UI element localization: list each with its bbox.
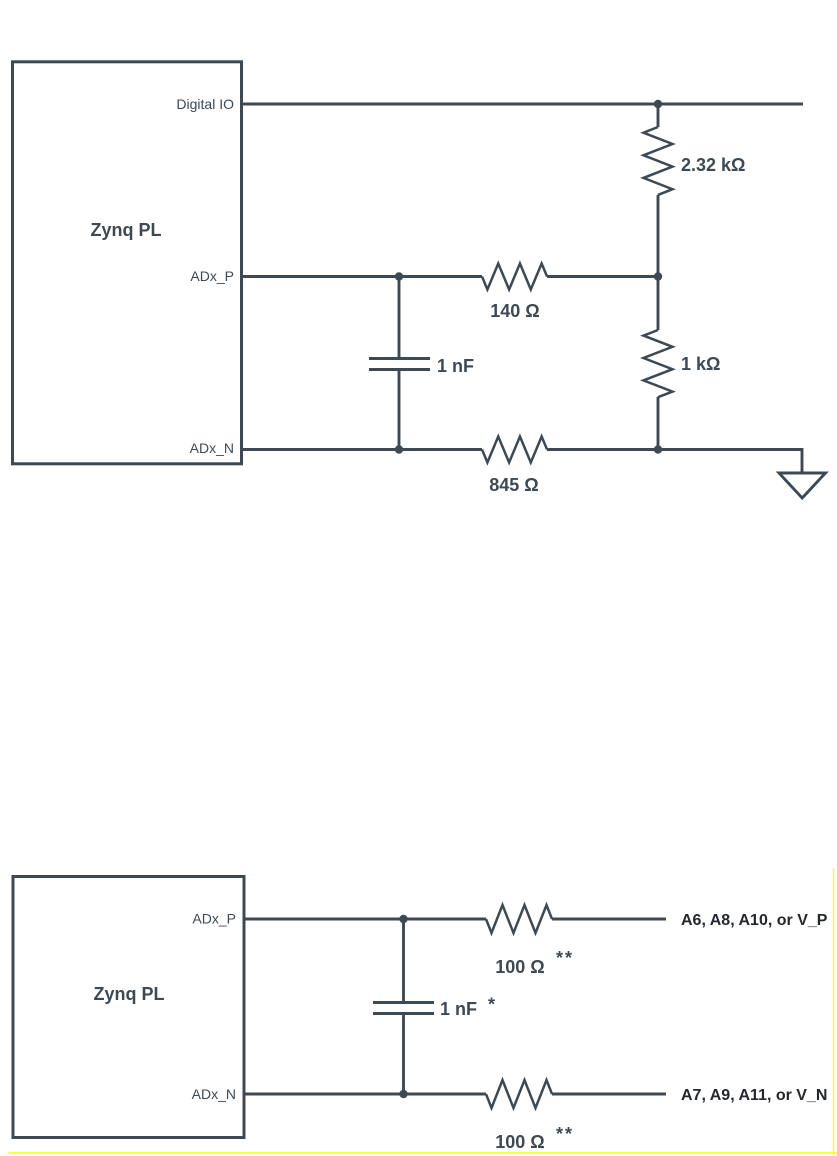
resistor 140 Ohm: [482, 264, 547, 290]
ground symbol: [779, 473, 826, 498]
capacitor C1 top lead: [398, 277, 401, 359]
wire between ADx_P node and 1k: [657, 277, 660, 331]
capacitor C1 plates: [369, 357, 430, 360]
svg-text:1 nF: 1 nF: [437, 356, 474, 376]
wire ADx_P: [242, 275, 482, 278]
node junction ADx_N right: [654, 445, 662, 453]
svg-text:100 Ω: 100 Ω: [495, 1132, 544, 1152]
node junction ADx_N cap bottom diagram: [399, 1090, 407, 1098]
svg-text:*: *: [488, 995, 495, 1015]
wire ADx_P bottom diagram: [244, 918, 486, 921]
svg-text:Zynq PL: Zynq PL: [91, 220, 162, 240]
resistor 100 Ohm bottom: [486, 1080, 552, 1108]
svg-text:1 kΩ: 1 kΩ: [681, 354, 720, 374]
Zynq PL box U2: [13, 877, 244, 1138]
svg-text:ADx_N: ADx_N: [190, 440, 234, 456]
wire Digital IO: [242, 103, 803, 106]
node junction ADx_P right: [654, 272, 662, 280]
wire between 1k and ADx_N: [657, 397, 660, 450]
highlight border right: [833, 868, 835, 1156]
wire to net label V_N: [552, 1093, 666, 1096]
wire to net label V_P: [552, 918, 666, 921]
capacitor C2 top lead: [402, 919, 405, 1002]
wire ADx_P right of resistor: [547, 275, 658, 278]
node junction top: [654, 100, 662, 108]
svg-text:2.32 kΩ: 2.32 kΩ: [681, 155, 745, 175]
svg-text:A7, A9, A11, or V_N: A7, A9, A11, or V_N: [681, 1087, 827, 1104]
resistor 845 Ohm: [482, 437, 547, 463]
svg-text:ADx_N: ADx_N: [192, 1086, 236, 1102]
capacitor C1 bottom lead: [398, 370, 401, 450]
svg-text:1 nF: 1 nF: [440, 999, 477, 1019]
resistor 2.32 kOhm: [644, 127, 673, 195]
svg-text:Zynq PL: Zynq PL: [94, 984, 165, 1004]
node junction ADx_P cap: [395, 272, 403, 280]
svg-text:**: **: [556, 948, 574, 968]
wire ADx_N bottom diagram: [244, 1093, 486, 1096]
svg-text:**: **: [556, 1124, 574, 1144]
resistor 1 kOhm: [644, 330, 673, 397]
wire ADx_N right of resistor to ground corner: [547, 450, 802, 474]
svg-text:100 Ω: 100 Ω: [495, 957, 544, 977]
svg-text:140 Ω: 140 Ω: [490, 301, 539, 321]
capacitor C2 plates: [373, 1001, 434, 1004]
wire between 2.32k and ADx_P node: [657, 195, 660, 277]
resistor 100 Ohm top: [486, 905, 552, 933]
wire ADx_N: [242, 448, 482, 451]
capacitor C2 bottom lead: [402, 1014, 405, 1094]
node junction ADx_N cap: [395, 445, 403, 453]
svg-text:Digital IO: Digital IO: [176, 96, 234, 112]
node junction ADx_P cap bottom diagram: [399, 915, 407, 923]
svg-text:A6, A8, A10, or V_P: A6, A8, A10, or V_P: [681, 912, 828, 929]
highlight border bottom: [8, 1152, 837, 1154]
wire vertical stub above 2.32k: [657, 104, 660, 127]
Zynq PL box U1: [13, 62, 242, 464]
svg-text:845 Ω: 845 Ω: [489, 475, 538, 495]
svg-text:ADx_P: ADx_P: [192, 911, 236, 927]
svg-text:ADx_P: ADx_P: [190, 268, 234, 284]
